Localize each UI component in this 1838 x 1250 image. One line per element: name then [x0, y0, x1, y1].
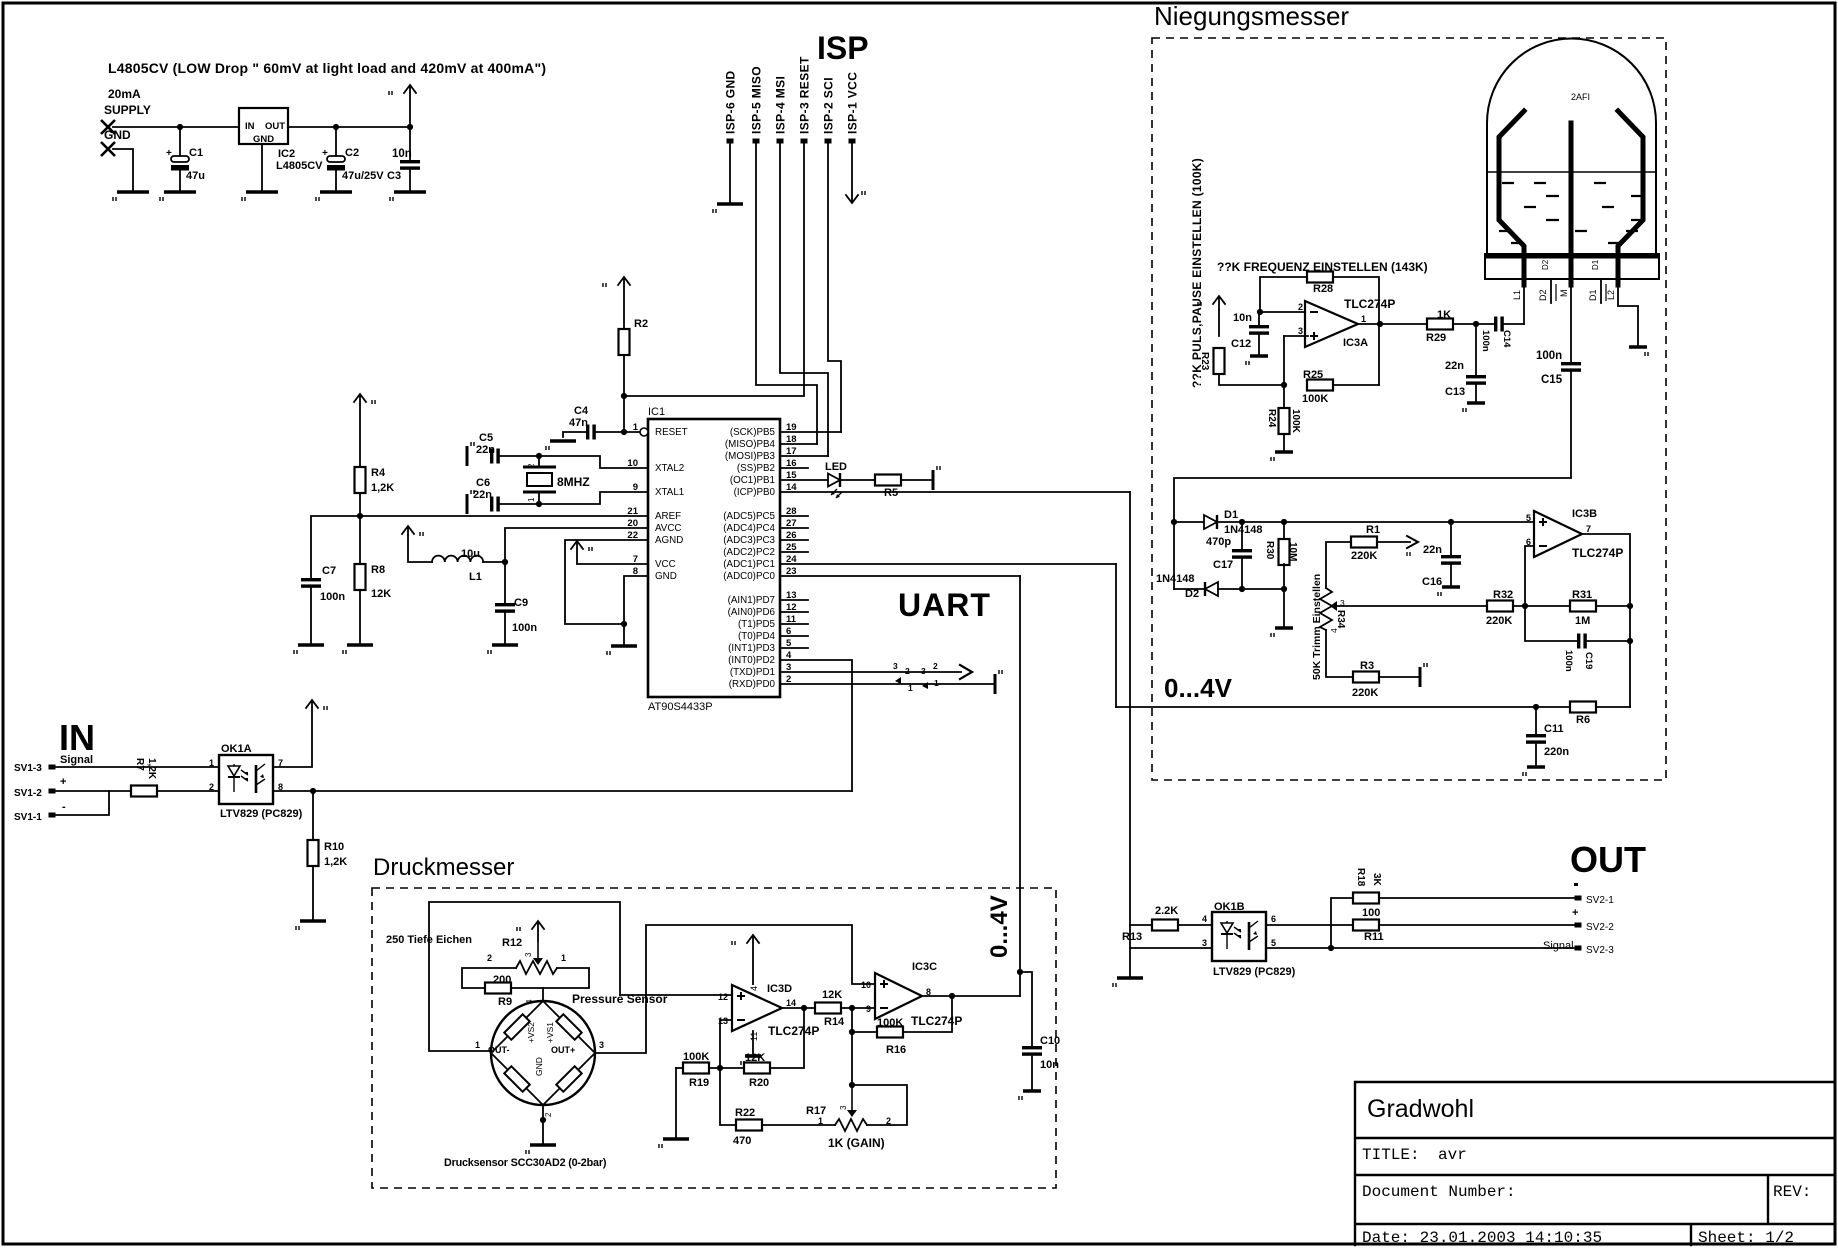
wire R10 bottom — [312, 866, 314, 921]
resistor R31 — [1570, 601, 1596, 612]
ground C3 — [390, 192, 426, 201]
wire R30 bottom lead — [1283, 564, 1285, 589]
wire R31 right — [1596, 605, 1630, 607]
svg-text:(ADC1)PC1: (ADC1)PC1 — [723, 559, 775, 570]
svg-text:5: 5 — [1271, 938, 1276, 948]
wire C14 to L1 — [1504, 323, 1524, 325]
wire VCC pin7 — [577, 563, 648, 565]
wire R24 top — [1283, 385, 1285, 408]
wire AREF row — [311, 516, 648, 578]
wire plus down — [1283, 336, 1285, 385]
wire C1 top — [179, 127, 181, 156]
capacitor C5 22n — [490, 449, 500, 464]
wire L1 left — [408, 536, 432, 562]
wire R1 right — [1377, 541, 1410, 543]
pad ISP-1 VCC — [849, 139, 856, 144]
wire D2 gnd — [1283, 589, 1285, 628]
vcc arrow OK1A — [306, 700, 327, 710]
wire SV1-3 to OK1A pin1 — [55, 766, 219, 768]
svg-text:1,2K: 1,2K — [371, 482, 394, 494]
ground C12 — [1246, 356, 1268, 365]
wire IC2 gnd pin — [261, 144, 263, 192]
wire pressure sensor row — [620, 994, 732, 996]
wire D1 left — [1174, 521, 1204, 523]
capacitor C6 22n — [490, 497, 500, 512]
resistor R29 — [1427, 319, 1453, 330]
node R25 left — [1281, 382, 1287, 388]
svg-text:4: 4 — [1202, 914, 1207, 924]
svg-text:R23: R23 — [1199, 352, 1210, 371]
svg-text:R13: R13 — [1122, 931, 1142, 943]
svg-text:IC2: IC2 — [278, 148, 295, 160]
op-amp IC3A — [1305, 301, 1358, 347]
svg-text:C9: C9 — [514, 597, 528, 609]
capacitor C15 100n — [1561, 362, 1581, 372]
wire R28 right down — [1333, 277, 1379, 385]
svg-text:R31: R31 — [1572, 589, 1592, 601]
node IC3C out — [949, 993, 955, 999]
wire AGND routing — [565, 540, 648, 624]
resistor R13 — [1152, 920, 1178, 931]
svg-text:100K: 100K — [1302, 393, 1328, 405]
svg-text:4: 4 — [525, 999, 534, 1004]
svg-text:AVCC: AVCC — [655, 523, 682, 534]
svg-text:14: 14 — [786, 998, 796, 1008]
wire C16 bottom — [1450, 565, 1452, 587]
pad SV2-1 — [1575, 896, 1582, 901]
svg-text:R20: R20 — [749, 1077, 769, 1089]
connector X gnd input — [101, 142, 115, 156]
wire C19 right — [1587, 640, 1630, 642]
svg-text:R14: R14 — [824, 1016, 845, 1028]
svg-text:SV1-1: SV1-1 — [14, 812, 42, 823]
wire R6 right — [1596, 706, 1630, 708]
pad SV2-3 — [1575, 946, 1582, 951]
wire C11 bottom — [1535, 744, 1537, 767]
svg-text:10u: 10u — [461, 548, 480, 560]
svg-text:SUPPLY: SUPPLY — [104, 103, 151, 117]
wire R4 bottom — [359, 493, 361, 516]
svg-text:OUT-: OUT- — [488, 1045, 510, 1055]
svg-text:L1: L1 — [1512, 290, 1522, 300]
svg-text:REV:: REV: — [1773, 1183, 1811, 1201]
svg-text:100n: 100n — [1563, 650, 1574, 672]
svg-text:R22: R22 — [735, 1107, 755, 1119]
resistor R6 — [1570, 702, 1596, 713]
ground bar UART — [995, 670, 1002, 694]
svg-text:1: 1 — [475, 1040, 480, 1050]
ground C11 — [1523, 767, 1545, 776]
vcc arrow R23 — [1198, 296, 1225, 310]
wire R34 wiper to R32 — [1337, 605, 1487, 607]
electrode M — [1569, 123, 1574, 285]
wire D1 stub — [1600, 279, 1602, 303]
svg-text:+: + — [60, 776, 66, 788]
diode D2 1N4148 — [1205, 582, 1218, 596]
svg-text:1N4148: 1N4148 — [1156, 573, 1195, 585]
wire C19 left — [1525, 606, 1577, 641]
wire IC3D out row — [781, 1007, 815, 1009]
inductor L1 10u — [432, 556, 483, 562]
svg-text:10n: 10n — [1040, 1059, 1059, 1071]
svg-text:(AIN0)PD6: (AIN0)PD6 — [728, 607, 776, 618]
connector UART TX arrow — [960, 665, 972, 679]
ground supply input — [113, 192, 149, 201]
svg-text:(T0)PD4: (T0)PD4 — [738, 631, 776, 642]
wire C12 bottom — [1258, 335, 1260, 356]
net flag arrow R1 — [1407, 536, 1418, 556]
wire pin2 RXD row — [780, 683, 993, 685]
node C16 top — [1448, 519, 1454, 525]
wire R23 top — [1218, 310, 1220, 336]
svg-text:XTAL1: XTAL1 — [655, 487, 684, 498]
svg-text:1N4148: 1N4148 — [1224, 524, 1263, 536]
svg-text:22n: 22n — [1423, 544, 1442, 556]
wire C11 top — [1535, 707, 1537, 734]
ground C4 — [546, 441, 576, 450]
svg-text:IC3C: IC3C — [912, 961, 937, 973]
capacitor C9 100n — [495, 603, 515, 613]
wire R12 pin2 down — [462, 968, 516, 988]
svg-text:R8: R8 — [371, 564, 385, 576]
svg-text:D1: D1 — [1588, 289, 1598, 301]
svg-text:IC1: IC1 — [648, 406, 665, 418]
ground R10 — [296, 921, 326, 930]
svg-text:R10: R10 — [324, 841, 344, 853]
wire pin6 row R11 — [1267, 924, 1353, 926]
ground OK1B — [1113, 978, 1143, 987]
wire ISP-4 MSI to PB3 — [780, 143, 828, 456]
resistor R25 — [1307, 380, 1333, 391]
node C17 top — [1239, 519, 1245, 525]
ground bar R5 — [933, 466, 940, 490]
wire ISP-6 GND down — [729, 143, 731, 204]
wire R8 top — [359, 516, 361, 564]
svg-text:C3: C3 — [387, 170, 401, 182]
node AREF — [357, 513, 363, 519]
svg-text:ISP-2 SCI: ISP-2 SCI — [822, 77, 836, 134]
svg-text:(INT0)PD2: (INT0)PD2 — [728, 655, 775, 666]
vcc arrow R4 — [354, 394, 375, 404]
vcc arrow VCC pin7 — [571, 541, 592, 564]
svg-text:220n: 220n — [1544, 746, 1569, 758]
vcc arrow IC3D — [732, 935, 759, 985]
tilt sensor base — [1485, 254, 1659, 279]
wire R17 pin2 up — [852, 1085, 907, 1125]
svg-text:100n: 100n — [512, 622, 537, 634]
wire R13 to OK1B — [1178, 924, 1212, 926]
svg-text:3K: 3K — [1371, 873, 1382, 887]
capacitor C19 100n — [1577, 634, 1587, 649]
pad ISP-5 MISO — [753, 139, 760, 144]
dashed box Druckmesser — [372, 888, 1056, 1188]
svg-text:TLC274P: TLC274P — [1344, 297, 1395, 311]
wire minus node down — [851, 1008, 853, 1085]
svg-text:11: 11 — [749, 1032, 759, 1041]
resistor R30 — [1279, 539, 1290, 565]
ground C10 — [1019, 1091, 1041, 1100]
svg-text:C16: C16 — [1422, 576, 1442, 588]
svg-text:OUT: OUT — [1570, 839, 1646, 880]
wire pin15 OC1 row to LED — [780, 479, 828, 481]
svg-text:TLC274P: TLC274P — [911, 1014, 962, 1028]
wire R18 branch — [1331, 898, 1353, 948]
ground ISP-6 — [713, 204, 743, 213]
resistor R11 — [1353, 920, 1379, 931]
svg-text:SV2-3: SV2-3 — [1586, 945, 1614, 956]
wire C17 bottom lead — [1241, 559, 1243, 589]
wire R18 to SV2-1 — [1379, 897, 1575, 899]
svg-text:(INT1)PD3: (INT1)PD3 — [728, 643, 775, 654]
node R30 top — [1281, 519, 1287, 525]
node IC3A minus — [1257, 309, 1263, 315]
svg-text:20mA: 20mA — [108, 87, 141, 101]
capacitor C3 10n — [400, 160, 420, 170]
pin 12 stub — [780, 611, 808, 613]
resistor R2 — [619, 329, 630, 355]
resistor R7 — [131, 786, 157, 797]
svg-text:M: M — [1559, 290, 1569, 298]
trimmer R12 zigzag — [516, 961, 557, 974]
wire LED to R5 — [841, 479, 875, 481]
svg-text:(SCK)PB5: (SCK)PB5 — [730, 427, 776, 438]
svg-text:0...4V: 0...4V — [986, 895, 1013, 958]
node IC3A out — [1377, 321, 1383, 327]
svg-text:100K: 100K — [877, 1017, 903, 1029]
wire supply input to IC2 IN — [113, 126, 239, 128]
svg-text:Niegungsmesser: Niegungsmesser — [1154, 1, 1349, 31]
svg-text:R5: R5 — [884, 487, 898, 499]
svg-text:(ADC2)PC2: (ADC2)PC2 — [723, 547, 775, 558]
svg-text:(ADC3)PC3: (ADC3)PC3 — [723, 535, 775, 546]
connector UART pin digits — [893, 661, 939, 693]
wire IC3C out row — [922, 995, 1020, 997]
resistor R8 — [355, 564, 366, 590]
pin 5 stub — [780, 647, 808, 649]
svg-text:8MHZ: 8MHZ — [557, 475, 590, 489]
ground R24 — [1271, 452, 1293, 461]
node C2 top — [333, 124, 339, 130]
wire OUT+ to IC3C — [595, 925, 875, 1053]
svg-text:R16: R16 — [886, 1044, 906, 1056]
wire IC3B out — [1582, 534, 1630, 707]
svg-text:R11: R11 — [1364, 931, 1384, 943]
wire C12 top — [1258, 312, 1260, 325]
wire R16 right up — [903, 996, 952, 1032]
svg-text:R2: R2 — [634, 318, 648, 330]
wire R16 left — [852, 1031, 877, 1033]
svg-text:C14: C14 — [1501, 330, 1512, 348]
ground C2 — [316, 192, 352, 201]
svg-text:L1: L1 — [469, 571, 482, 583]
ground bar R3 — [1420, 663, 1427, 687]
svg-text:(ADC5)PC5: (ADC5)PC5 — [723, 511, 775, 522]
wire R13 left — [1130, 924, 1152, 926]
svg-text:2: 2 — [933, 661, 938, 671]
wire C2 bottom — [335, 171, 337, 192]
svg-text:RESET: RESET — [655, 427, 688, 438]
svg-text:GND: GND — [253, 134, 274, 145]
svg-text:3: 3 — [1202, 938, 1207, 948]
node D1 left — [1171, 519, 1177, 525]
wire R25 right — [1333, 384, 1379, 386]
svg-text:22n: 22n — [473, 489, 492, 501]
trimmer R17 wiper — [847, 1085, 857, 1117]
svg-text:7: 7 — [1586, 524, 1591, 534]
svg-text:C11: C11 — [1544, 723, 1564, 735]
wire R9 right up — [511, 968, 589, 988]
svg-text:C19: C19 — [1583, 652, 1594, 669]
svg-text:47u: 47u — [186, 170, 205, 182]
svg-text:L4805CV: L4805CV — [276, 160, 323, 172]
svg-text:R30: R30 — [1264, 541, 1275, 560]
vcc arrow R12 — [517, 921, 544, 942]
wire R2 bottom — [623, 355, 625, 396]
pin 11 stub — [780, 623, 808, 625]
svg-text:1: 1 — [209, 758, 214, 768]
wire C17 top lead — [1241, 522, 1243, 549]
svg-text:ISP-1 VCC: ISP-1 VCC — [846, 72, 860, 134]
bridge arms with resistors — [491, 1001, 595, 1105]
svg-text:+: + — [322, 148, 328, 159]
svg-text:2: 2 — [487, 953, 492, 963]
svg-text:3: 3 — [599, 1040, 604, 1050]
diode D1 1N4148 — [1204, 515, 1217, 529]
wire C9 top — [504, 562, 506, 603]
wire R2 top — [623, 287, 625, 329]
wire ISP-3 RESET to reset node — [624, 143, 804, 396]
wire ISP-5 MISO to PB4 — [756, 143, 817, 444]
svg-text:100n: 100n — [1480, 330, 1491, 352]
wire reset node down — [623, 396, 625, 432]
dashed box Niegungsmesser — [1152, 38, 1666, 780]
node fb IC3D — [717, 1065, 723, 1071]
resistor R5 — [875, 475, 901, 486]
ground R19 — [659, 1139, 689, 1148]
node crystal bottom — [536, 501, 542, 507]
svg-text:50K Trimm Einstellen: 50K Trimm Einstellen — [1311, 574, 1323, 680]
wire C1 bottom — [179, 171, 181, 192]
svg-text:C2: C2 — [345, 147, 359, 159]
svg-text:10n: 10n — [392, 148, 412, 160]
capacitor C17 470p — [1232, 549, 1252, 559]
svg-text:LED: LED — [825, 461, 847, 473]
trimmer R17 zigzag — [835, 1119, 867, 1131]
wire C9 bottom — [504, 613, 506, 645]
svg-text:1: 1 — [818, 1116, 823, 1126]
wire C4 left — [563, 432, 586, 437]
svg-text:3: 3 — [921, 666, 926, 676]
ground bar C5 — [467, 442, 474, 466]
ground IC3D pin11 — [741, 1056, 761, 1065]
svg-text:2: 2 — [209, 782, 214, 792]
dot SV2-1 mark — [1574, 883, 1578, 886]
svg-text:C13: C13 — [1445, 386, 1465, 398]
svg-text:VCC: VCC — [655, 559, 676, 570]
svg-text:Date: 23.01.2003 14:10:35: Date: 23.01.2003 14:10:35 — [1362, 1229, 1602, 1247]
svg-text:2: 2 — [1298, 302, 1303, 312]
wire reset to pin1 — [624, 431, 640, 433]
svg-text:ISP-4 MSI: ISP-4 MSI — [774, 76, 788, 134]
tilt sensor liquid line — [1487, 171, 1656, 173]
wire D1 D2 vertical — [1173, 522, 1175, 589]
wire pin5 row SV2-3 — [1267, 947, 1575, 949]
svg-text:+VS2: +VS2 — [526, 1022, 536, 1043]
resistor R1 — [1351, 537, 1377, 548]
wire M lead — [1570, 285, 1572, 362]
pin 16 stub — [780, 467, 808, 469]
wire pin19 SCK row — [780, 431, 841, 433]
svg-text:C5: C5 — [479, 432, 493, 444]
svg-text:R19: R19 — [689, 1077, 709, 1089]
svg-text:+VS1: +VS1 — [545, 1022, 555, 1043]
svg-text:GND: GND — [655, 571, 677, 582]
wire tilt out row — [1116, 706, 1570, 708]
svg-text:2.2K: 2.2K — [1155, 905, 1178, 917]
resistor R19 — [683, 1063, 709, 1074]
svg-text:100K: 100K — [1290, 409, 1301, 434]
ground IC2 — [242, 192, 278, 201]
wire IC3A out — [1358, 323, 1427, 325]
wire C3 bottom — [409, 170, 411, 192]
wire IC3D minus down — [720, 1020, 732, 1068]
pad ISP-3 RESET — [801, 139, 808, 144]
svg-text:R29: R29 — [1426, 332, 1446, 344]
svg-text:(RXD)PD0: (RXD)PD0 — [729, 679, 776, 690]
wire IC3A plus row — [1284, 335, 1308, 337]
wire pin17 MOSI row — [780, 455, 828, 457]
svg-text:4: 4 — [749, 986, 759, 991]
wire C13 bottom — [1475, 385, 1477, 403]
svg-text:Sheet: 1/2: Sheet: 1/2 — [1698, 1229, 1794, 1247]
ground D2 R30 — [1271, 628, 1293, 637]
svg-text:1: 1 — [527, 497, 536, 502]
trimmer R34 wiper — [1330, 601, 1337, 611]
svg-text:2: 2 — [544, 1112, 553, 1117]
svg-text:Gradwohl: Gradwohl — [1367, 1095, 1474, 1123]
wire PC1 vertical — [1115, 564, 1117, 707]
svg-text:1: 1 — [633, 422, 639, 433]
wire R24 bottom — [1283, 434, 1285, 452]
ground C13 — [1463, 403, 1485, 412]
svg-text:LTV829 (PC829): LTV829 (PC829) — [220, 808, 303, 820]
node IC3D out — [801, 1005, 807, 1011]
wire R28 loop — [1260, 277, 1307, 312]
pin 1 reset inversion circle — [640, 428, 648, 436]
svg-text:(ADC4)PC4: (ADC4)PC4 — [723, 523, 775, 534]
svg-text:3: 3 — [524, 952, 533, 957]
ground C16 — [1438, 587, 1460, 596]
resistor R10 — [308, 840, 319, 866]
svg-text:47u/25V: 47u/25V — [342, 170, 384, 182]
svg-text:Signal: Signal — [60, 754, 93, 766]
node R32 R31 — [1522, 603, 1528, 609]
node reset isp — [621, 393, 627, 399]
node druck out — [1017, 969, 1023, 975]
svg-text:(SS)PB2: (SS)PB2 — [737, 463, 775, 474]
svg-text:3: 3 — [839, 1105, 848, 1110]
svg-text:3: 3 — [1298, 326, 1303, 336]
capacitor C7 100n — [301, 578, 321, 588]
svg-text:C6: C6 — [476, 477, 490, 489]
svg-text:100n: 100n — [1536, 350, 1562, 362]
node C19 right — [1627, 638, 1633, 644]
svg-text:12: 12 — [718, 992, 728, 1002]
node AVCC C9 — [502, 559, 508, 565]
wire R14 to IC3C minus — [841, 1007, 875, 1009]
wire R30 top lead — [1283, 522, 1285, 540]
wire IC3B minus — [1525, 546, 1534, 606]
